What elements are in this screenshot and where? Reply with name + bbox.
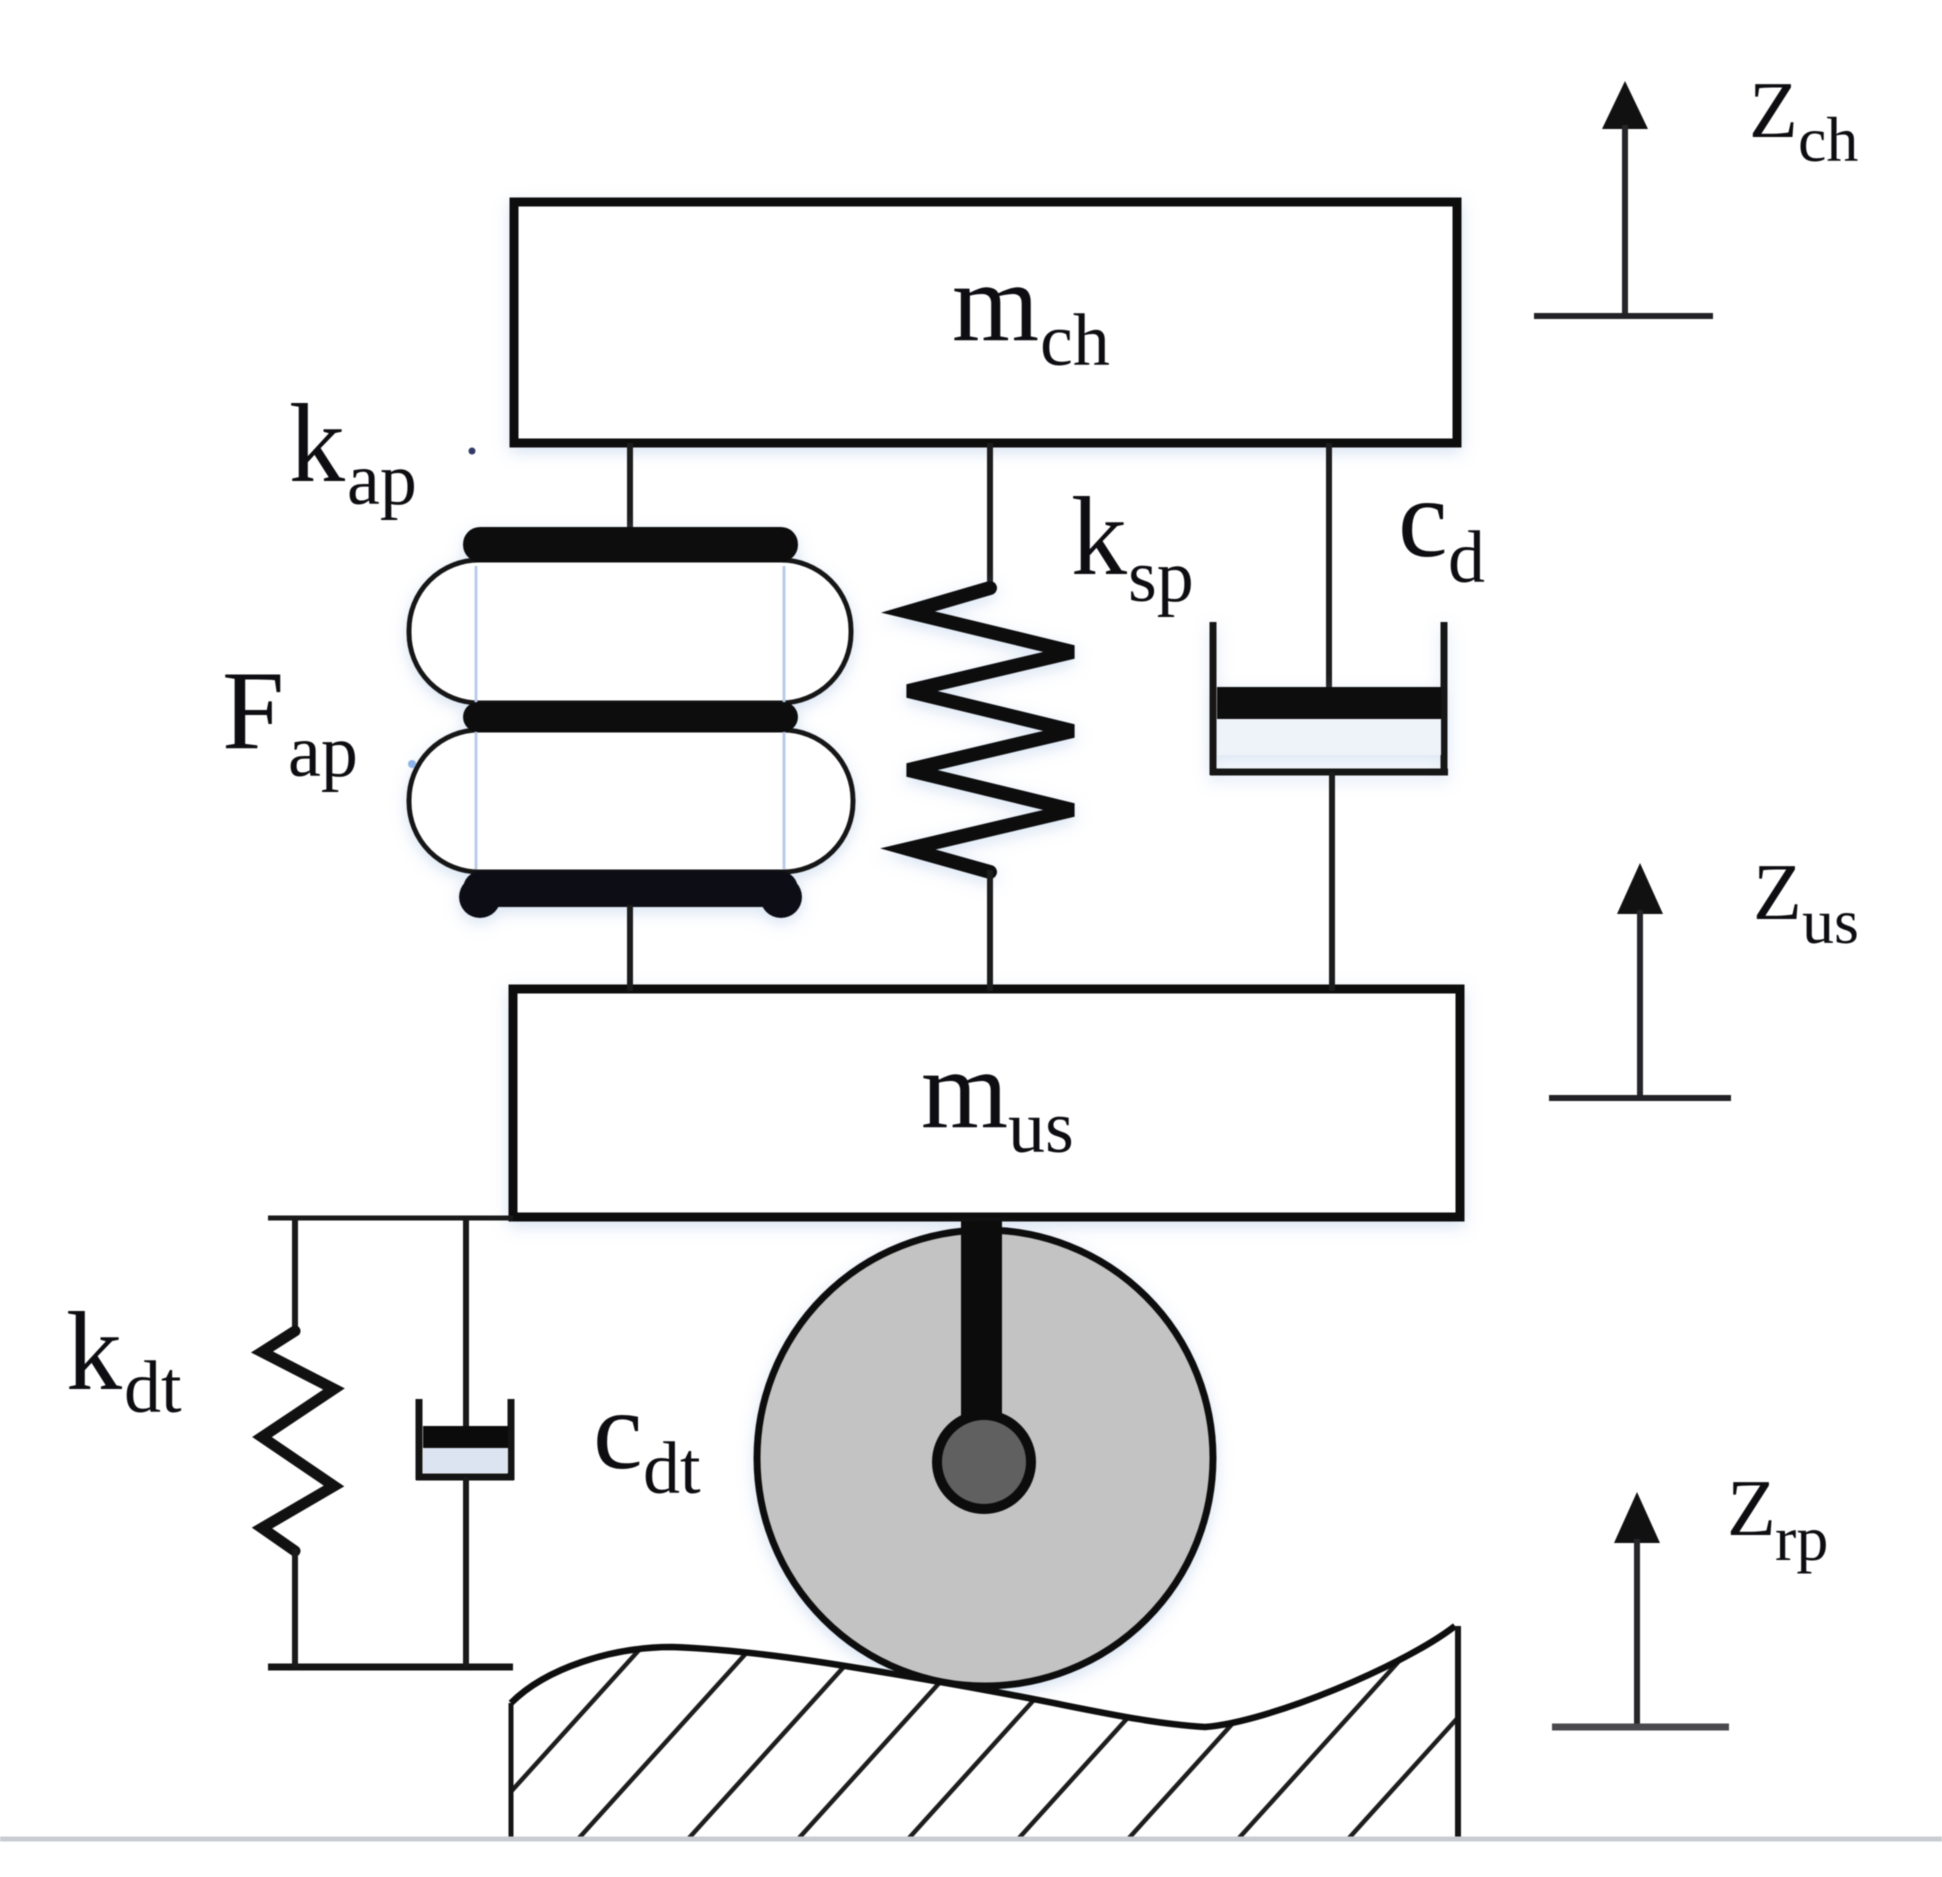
- svg-text:Z: Z: [1753, 849, 1802, 937]
- stray speck: [469, 448, 476, 455]
- bellows bottom plate: [463, 871, 798, 907]
- svg-text:m: m: [952, 241, 1039, 365]
- wire from m_ch to damper c_d (piston rod): [1326, 443, 1332, 700]
- stray speck: [408, 760, 416, 768]
- svg-text:ap: ap: [347, 439, 417, 521]
- svg-text:ch: ch: [1040, 300, 1110, 382]
- air spring F_ap / k_ap (bellows): [409, 527, 853, 918]
- svg-text:Z: Z: [1749, 67, 1798, 155]
- wire from damper to m_us: [1329, 772, 1335, 991]
- bellows middle plate: [463, 702, 798, 732]
- bellows top plate: [463, 527, 798, 562]
- wire from spring k_dt: [292, 1549, 298, 1667]
- z_ch reference arrow: [1534, 81, 1713, 316]
- wire from m_ch to air spring: [627, 443, 633, 530]
- z_rp reference arrow: [1552, 1492, 1729, 1727]
- road hatching: [350, 1618, 1658, 1848]
- spring k_dt (tire stiffness zigzag): [262, 1331, 334, 1551]
- svg-text:c: c: [1398, 457, 1448, 581]
- bellows side guide lines: [475, 566, 478, 869]
- mass m_ch (chassis): [514, 202, 1457, 443]
- tire stiffness/damping attachment top bar: [268, 1216, 513, 1221]
- svg-text:dt: dt: [124, 1347, 182, 1429]
- svg-text:rp: rp: [1775, 1503, 1828, 1574]
- svg-text:F: F: [222, 649, 284, 773]
- svg-text:ch: ch: [1798, 104, 1858, 175]
- road left edge: [509, 1703, 514, 1838]
- bellows lower lobe: [409, 730, 853, 872]
- svg-text:k: k: [289, 382, 345, 506]
- mass m_us (unsprung): [513, 989, 1460, 1217]
- svg-text:ap: ap: [288, 711, 358, 793]
- damper c_dt piston: [423, 1426, 508, 1448]
- svg-text:sp: sp: [1128, 536, 1194, 618]
- damper c_d cylinder: [1210, 622, 1448, 775]
- damper c_dt rod: [463, 1218, 469, 1432]
- wire to spring k_dt: [292, 1218, 298, 1333]
- wire from damper c_dt: [463, 1477, 469, 1667]
- tire attachment bottom bar: [268, 1664, 513, 1671]
- svg-text:us: us: [1802, 886, 1859, 957]
- road right edge: [1455, 1626, 1461, 1838]
- svg-text:k: k: [66, 1290, 122, 1414]
- wheel (tire): [757, 1230, 1213, 1686]
- wire from air spring to m_us: [627, 905, 633, 991]
- svg-text:d: d: [1448, 517, 1485, 599]
- svg-text:us: us: [1008, 1087, 1074, 1169]
- damper c_dt cylinder: [416, 1399, 423, 1480]
- ground baseline: [0, 1837, 1942, 1842]
- wire from spring to m_us: [987, 870, 993, 991]
- wheel rod: [961, 1221, 1002, 1462]
- road surface with hatching: [350, 1618, 1658, 1848]
- wheel hub: [937, 1415, 1031, 1509]
- svg-text:c: c: [593, 1369, 643, 1493]
- svg-text:m: m: [921, 1028, 1008, 1152]
- road surface curve: [511, 1626, 1455, 1727]
- bellows upper lobe: [409, 560, 851, 703]
- wire from m_ch to spring k_sp: [987, 443, 993, 590]
- z_us reference arrow: [1549, 863, 1731, 1098]
- svg-text:Z: Z: [1727, 1465, 1776, 1553]
- damper c_d piston: [1217, 687, 1441, 719]
- spring k_sp (zigzag): [908, 588, 1073, 872]
- svg-text:dt: dt: [643, 1428, 701, 1510]
- svg-text:k: k: [1071, 475, 1127, 599]
